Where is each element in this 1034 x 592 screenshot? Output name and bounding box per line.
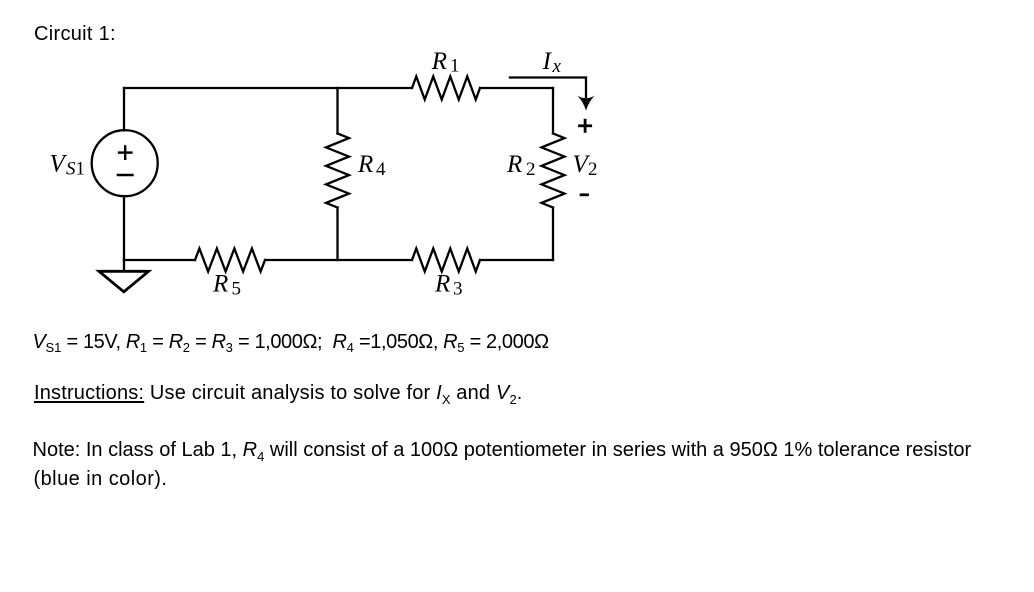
svg-text:R: R: [506, 151, 522, 178]
svg-text:I: I: [542, 48, 553, 75]
svg-text:R: R: [434, 270, 450, 297]
svg-text:3: 3: [453, 279, 463, 300]
svg-text:1: 1: [450, 56, 460, 77]
svg-text:R: R: [431, 48, 447, 75]
svg-text:1: 1: [76, 159, 86, 180]
svg-text:2: 2: [526, 159, 536, 180]
svg-text:5: 5: [232, 279, 242, 300]
svg-text:2: 2: [588, 159, 598, 180]
svg-text:V: V: [50, 150, 68, 177]
svg-text:4: 4: [376, 159, 386, 180]
svg-text:R: R: [212, 270, 228, 297]
svg-text:x: x: [552, 56, 562, 77]
svg-text:R: R: [357, 151, 373, 178]
svg-text:S: S: [66, 159, 76, 180]
